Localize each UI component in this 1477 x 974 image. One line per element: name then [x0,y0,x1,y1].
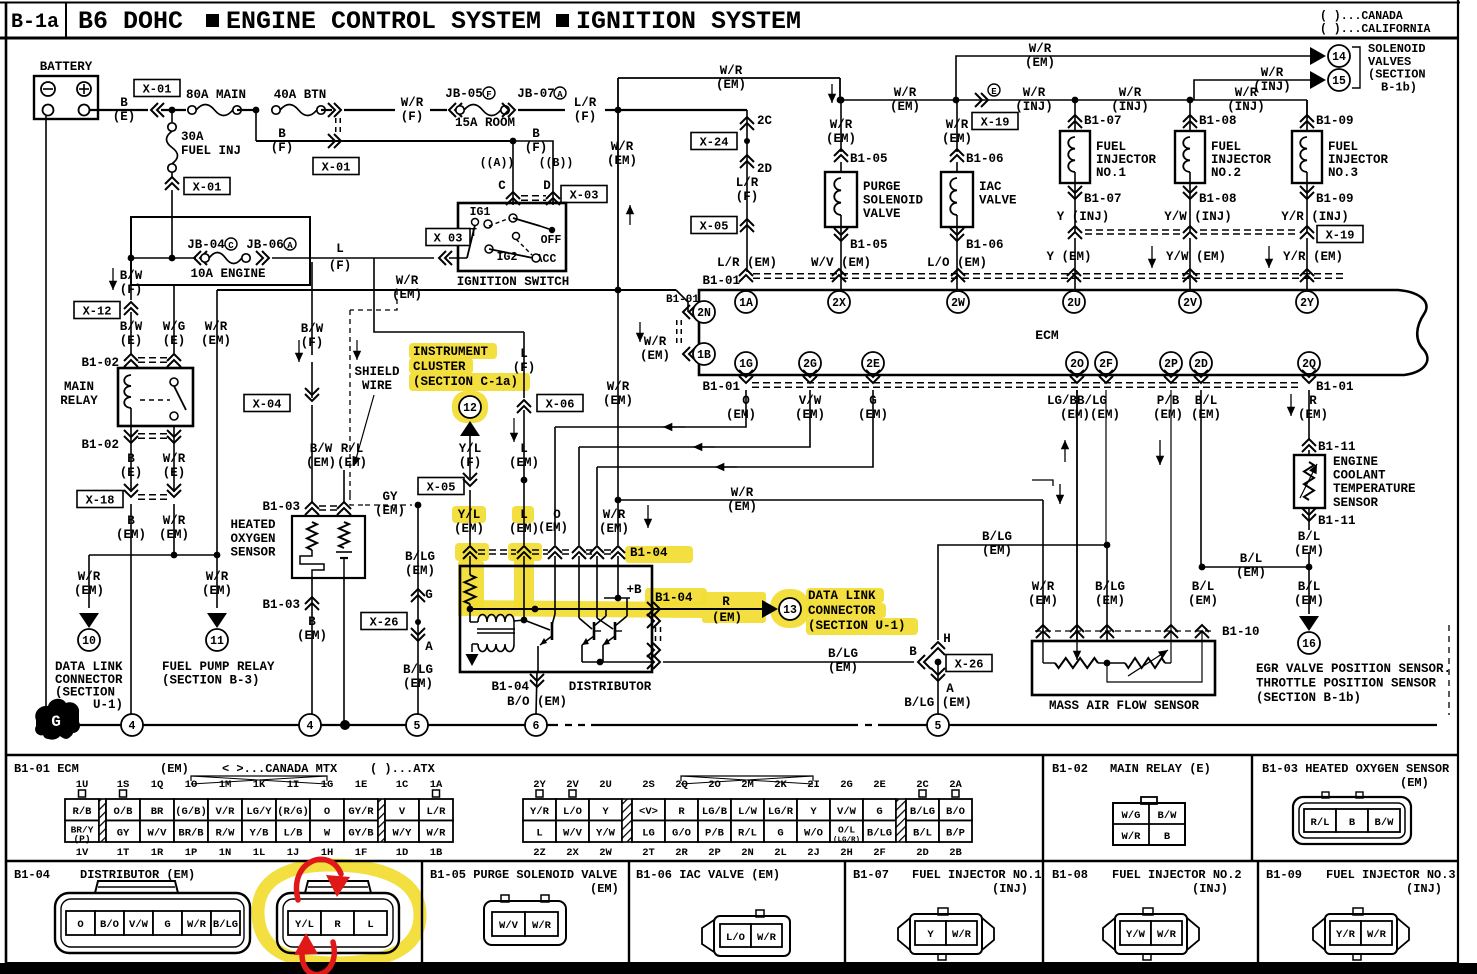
wire R/L shield down [343,470,345,503]
distributor connector A [55,893,250,953]
svg-text:1I: 1I [287,779,300,791]
svg-text:Y: Y [927,929,934,941]
connector B1-11 top [1302,439,1316,452]
svg-text:L/R: L/R [427,806,447,818]
fuse 10A ENGINE [201,254,209,262]
svg-text:GY: GY [382,490,398,504]
grid pin tabs right [536,790,543,797]
svg-text:VALVE: VALVE [863,207,901,221]
ECM left pins [683,305,696,319]
chevron main feed X-01 [151,103,164,117]
svg-text:B: B [127,514,135,528]
svg-text:(E): (E) [120,334,143,348]
svg-text:G: G [876,806,882,818]
svg-text:TEMPERATURE: TEMPERATURE [1333,482,1416,496]
svg-text:(F): (F) [736,190,759,204]
svg-text:JB-05: JB-05 [445,87,483,101]
frame: B-1a cell divider [65,2,67,38]
svg-text:2G: 2G [803,358,817,371]
svg-text:2M: 2M [741,779,754,791]
highlight B1-04 right label [645,588,707,605]
wire Y/R (EM) to ECM [1306,238,1308,292]
ECM pin 2F [1095,352,1117,374]
connector B1-08 top chevron [1189,100,1191,131]
svg-text:W/R: W/R [611,140,634,154]
svg-text:OFF: OFF [541,234,562,247]
svg-text:1E: 1E [355,779,368,791]
wire B/LG from distributor to X-26 [663,661,914,663]
chevron after 15A [502,103,515,117]
svg-text:(EM): (EM) [1294,594,1324,608]
svg-text:2D: 2D [757,162,773,176]
svg-text:B/O: B/O [946,806,965,818]
svg-text:B/L: B/L [1240,552,1263,566]
svg-text:1M: 1M [219,779,232,791]
svg-text:2J: 2J [807,847,820,859]
svg-text:B/LG: B/LG [828,647,858,661]
svg-text:13: 13 [783,604,797,617]
svg-text:Y: Y [810,806,817,818]
svg-text:2R: 2R [675,847,688,859]
ECM pin 1A [735,291,757,313]
wire B/L to MAF [1202,566,1309,568]
svg-text:B1-07: B1-07 [1084,192,1122,206]
svg-text:W/R: W/R [163,514,186,528]
ignition switch box [458,203,566,271]
main relay connector [1113,803,1185,845]
svg-text:B1-06: B1-06 [966,238,1004,252]
svg-text:W/R: W/R [427,827,447,839]
wire R (EM) to circled 13 [663,608,762,610]
svg-text:W/R: W/R [1122,831,1142,843]
svg-text:R/B: R/B [73,806,93,818]
svg-text:Y/R (INJ): Y/R (INJ) [1281,210,1349,224]
svg-text:W/G: W/G [163,320,186,334]
svg-text:1B: 1B [430,847,443,859]
igniter transistor T3 [614,622,617,640]
svg-text:G: G [425,588,433,602]
svg-text:DATA LINK: DATA LINK [808,589,876,603]
svg-text:B/LG: B/LG [1095,580,1125,594]
svg-text:A: A [425,640,433,654]
label B1-04 and distributor [536,672,537,714]
svg-text:P/B: P/B [1157,394,1180,408]
svg-text:VALVE: VALVE [979,194,1017,208]
svg-text:<V>: <V> [639,806,658,818]
ignition coil core [477,628,515,630]
svg-text:5: 5 [935,720,942,733]
svg-text:X-24: X-24 [700,135,729,149]
chevron 10A out [256,251,269,265]
arrow to fuel pump relay 11 [207,613,227,628]
junction dot B(F) branch [253,107,260,114]
emitter bus to B/LG output [582,661,652,663]
svg-text:(SECTION U-1): (SECTION U-1) [808,619,906,633]
wire W/R vertical to distributor [617,290,619,545]
svg-text:O: O [77,919,83,931]
svg-text:(F): (F) [271,141,294,155]
svg-text:1S: 1S [117,779,130,791]
svg-text:1K: 1K [253,779,266,791]
svg-text:2P: 2P [708,847,721,859]
svg-text:BR: BR [151,806,164,818]
svg-text:CONNECTOR: CONNECTOR [808,604,876,618]
svg-text:B/W: B/W [120,320,143,334]
svg-text:B1-11: B1-11 [1318,514,1356,528]
wire distribution to 10/11 [89,554,217,556]
svg-text:B1-06: B1-06 [966,152,1004,166]
connector X-12 [74,302,120,319]
svg-text:2K: 2K [774,779,787,791]
svg-text:(EM): (EM) [509,522,539,536]
svg-text:(E): (E) [120,466,143,480]
svg-text:1A: 1A [430,779,443,791]
svg-text:2T: 2T [642,847,655,859]
svg-text:B-1b): B-1b) [1381,80,1417,94]
svg-text:Y/W: Y/W [596,827,616,839]
connector X-19 chevron [1183,226,1197,239]
svg-text:BR/B: BR/B [178,827,204,839]
svg-text:B1-09: B1-09 [1316,114,1354,128]
svg-text:FUEL: FUEL [1211,140,1241,154]
highlight B1-04 bus row [455,543,489,561]
distributor connector B (circled) [277,893,399,953]
svg-text:B1-01: B1-01 [702,274,740,288]
svg-text:G: G [51,713,61,731]
svg-text:W/V: W/V [499,920,519,932]
svg-text:B1-01: B1-01 [702,380,740,394]
svg-text:1B: 1B [697,349,711,362]
svg-text:(EM): (EM) [159,528,189,542]
connector X-26 chevron [918,655,931,669]
wire W/R(EM) to solenoid valves top [956,56,1310,100]
svg-text:B: B [1349,817,1356,829]
svg-text:W/R: W/R [603,508,626,522]
svg-text:O: O [553,508,561,522]
highlight distributor L wire vertical [514,552,534,610]
svg-text:1N: 1N [219,847,232,859]
svg-text:(EM): (EM) [202,584,232,598]
svg-text:X 03: X 03 [434,231,463,245]
svg-text:2O: 2O [1070,358,1084,371]
svg-text:L/O: L/O [726,932,745,944]
junction dot 30A branch [169,107,176,114]
wire: battery negative to ground G [45,116,47,706]
purge solenoid valve [825,172,857,227]
svg-text:2Q: 2Q [1302,358,1316,371]
power transistor T1 [551,622,554,640]
svg-text:MASS AIR FLOW SENSOR: MASS AIR FLOW SENSOR [1049,699,1200,713]
svg-text:L/O: L/O [563,806,582,818]
svg-text:W/R: W/R [607,380,630,394]
svg-text:B1-01: B1-01 [1316,380,1354,394]
svg-text:ECM: ECM [1035,328,1059,343]
svg-text:2D: 2D [1194,358,1208,371]
svg-text:Y/W: Y/W [1126,929,1146,941]
svg-text:Y/L: Y/L [295,919,314,931]
injector 3 connector [1313,918,1325,950]
connector B1-06 bottom chevron [956,227,958,250]
svg-text:B/LG: B/LG [405,550,435,564]
svg-text:(G/B): (G/B) [175,806,207,818]
svg-text:L: L [367,919,373,931]
svg-text:Y: Y [602,806,609,818]
svg-text:(F): (F) [459,456,482,470]
svg-text:SENSOR: SENSOR [230,546,276,560]
svg-text:(EM): (EM) [599,522,629,536]
svg-text:COOLANT: COOLANT [1333,469,1386,483]
svg-text:B1-02: B1-02 [81,438,119,452]
svg-text:B1-06 IAC VALVE (EM): B1-06 IAC VALVE (EM) [636,868,780,882]
svg-text:W/V: W/V [563,827,583,839]
ECM pin 2O [1066,352,1088,374]
red annotation arrows [296,859,341,974]
svg-text:(EM): (EM) [942,132,972,146]
svg-text:B1-08: B1-08 [1052,868,1088,882]
svg-text:L/B: L/B [284,827,304,839]
svg-text:LG/R: LG/R [768,806,794,818]
svg-text:GY/R: GY/R [348,806,374,818]
svg-text:1D: 1D [396,847,409,859]
ECM pin 1G [735,352,757,374]
svg-text:X-12: X-12 [83,304,112,318]
svg-text:< >...CANADA MTX: < >...CANADA MTX [222,762,338,776]
wire L (F) to ignition switch [272,257,434,259]
svg-text:B1-04: B1-04 [14,868,50,882]
svg-text:B1-03: B1-03 [262,500,300,514]
svg-text:(INJ): (INJ) [1111,100,1149,114]
svg-text:1T: 1T [117,847,130,859]
connector X-06 [517,400,531,413]
connector B1-09 bottom chevron [1306,183,1308,232]
svg-text:PURGE: PURGE [863,180,901,194]
svg-text:R: R [722,595,730,609]
svg-text:IG1: IG1 [470,206,491,219]
frame: top border [0,2,1460,4]
svg-text:NO.3: NO.3 [1328,166,1358,180]
svg-text:IGNITION SYSTEM: IGNITION SYSTEM [576,7,801,36]
connector X-01 [134,80,180,97]
connector X-01 label mid [313,158,359,175]
svg-text:L/R: L/R [736,176,759,190]
connector X-03 chevrons [506,192,520,205]
svg-text:2L: 2L [774,847,787,859]
svg-text:(EM): (EM) [826,132,856,146]
svg-text:RELAY: RELAY [60,394,98,408]
svg-text:(EM): (EM) [607,154,637,168]
connector B1-01 right grid [523,799,556,821]
svg-text:SHIELD: SHIELD [354,365,400,379]
bracket solenoid valves [1352,47,1360,88]
svg-text:(INJ): (INJ) [1015,100,1053,114]
fuse 15A ROOM [456,106,464,114]
svg-text:2B: 2B [949,847,962,859]
connector X-03 box [561,186,607,203]
svg-text:2V: 2V [1183,297,1197,310]
svg-text:INJECTOR: INJECTOR [1328,153,1389,167]
svg-text:B1-08: B1-08 [1199,192,1237,206]
svg-text:(EM): (EM) [727,500,757,514]
connector X-19 box [972,113,1018,130]
wire B(F) right branch [513,140,553,142]
ECM pin 2D [1190,352,1212,374]
wire IAC valve supply [956,100,958,152]
svg-text:Y/L: Y/L [458,508,481,522]
connector X-24 [691,133,737,150]
wire B/LG from X-26 to MAF [938,545,1107,640]
injector 1 connector [898,918,910,950]
svg-text:2W: 2W [951,297,965,310]
connector B1-07 bottom chevron [1074,183,1076,232]
svg-text:B1-02: B1-02 [81,356,119,370]
connector B1-10 bus [1036,625,1050,638]
connector X-26 [361,613,407,630]
tables verticals row1 [1042,755,1044,861]
svg-text:2Y: 2Y [1300,297,1314,310]
chevron E on injector feed [975,93,988,107]
ECM pin 2P [1160,352,1182,374]
svg-text:(EM): (EM) [1400,776,1429,790]
ECM body [699,290,1427,375]
R wire through distributor [470,608,700,610]
svg-text:(F): (F) [329,259,352,273]
svg-text:4: 4 [307,720,314,733]
+B node [615,595,622,602]
connector X-18 [77,491,123,508]
wire from ignition switch IG1 down [374,258,524,332]
junction dot jb [128,255,135,262]
svg-text:W/R: W/R [1032,580,1055,594]
svg-text:Y (EM): Y (EM) [1046,250,1091,264]
connector B1-08 bottom chevron [1189,183,1191,232]
svg-text:(EM): (EM) [403,677,433,691]
svg-text:(EM): (EM) [405,564,435,578]
svg-text:B1-09: B1-09 [1266,868,1302,882]
svg-text:R/L: R/L [341,442,364,456]
svg-text:W/O: W/O [804,827,823,839]
svg-text:B/LG: B/LG [213,919,238,931]
svg-text:1F: 1F [355,847,368,859]
connector X 03 box [426,229,470,246]
svg-text:V/W: V/W [129,919,149,931]
svg-text:W/Y: W/Y [393,827,413,839]
svg-text:FUEL: FUEL [1096,140,1126,154]
wire L/O to ECM [956,250,958,292]
svg-text:2O: 2O [708,779,721,791]
svg-text:B1-08: B1-08 [1199,114,1237,128]
svg-text:L: L [520,442,528,456]
svg-text:X-19: X-19 [1326,228,1355,242]
svg-text:2W: 2W [599,847,612,859]
svg-text:(EM): (EM) [590,882,619,896]
svg-text:5: 5 [414,720,421,733]
svg-text:( )...CALIFORNIA: ( )...CALIFORNIA [1320,23,1431,36]
dashed GY wire [350,495,365,505]
svg-text:2V: 2V [566,779,579,791]
ground symbol G [35,699,80,740]
svg-text:B1-03 HEATED OXYGEN SENSOR: B1-03 HEATED OXYGEN SENSOR [1262,762,1450,776]
svg-text:(INJ): (INJ) [1406,882,1442,896]
svg-text:W/R: W/R [396,274,419,288]
svg-text:+B: +B [626,583,642,597]
svg-text:(P): (P) [73,833,90,844]
svg-text:LG/B: LG/B [702,806,728,818]
svg-text:W/R: W/R [731,486,754,500]
wire W/G column [173,285,175,355]
grid pin tabs left [79,790,86,797]
svg-text:BATTERY: BATTERY [40,60,93,74]
main relay [118,368,193,426]
svg-text:R/L: R/L [1311,817,1330,829]
distributor internal ground [472,643,478,645]
svg-text:B/LG: B/LG [403,663,433,677]
arrow to solenoid valve 15 [1310,71,1326,89]
connector X-19 chevron [1300,226,1314,239]
svg-text:(EM): (EM) [890,100,920,114]
svg-text:IAC: IAC [979,180,1002,194]
svg-text:(EM): (EM) [201,334,231,348]
highlight R wire band through distributor [458,600,702,618]
tables frame top [6,754,1458,756]
wire Y (EM) to ECM [1074,238,1076,292]
svg-text:B1-11: B1-11 [1318,440,1356,454]
svg-text:(SECTION B-3): (SECTION B-3) [162,674,260,688]
svg-text:INJECTOR: INJECTOR [1096,153,1157,167]
svg-text:O/L: O/L [838,824,855,835]
bottom black bar [0,963,1477,974]
junction L wire [521,617,528,624]
bracket above 1O..1G [191,776,327,781]
svg-text:B1-04: B1-04 [655,591,693,605]
svg-text:(EM): (EM) [982,544,1012,558]
svg-text:2U: 2U [1067,297,1081,310]
svg-text:2D: 2D [916,847,929,859]
svg-text:(EM): (EM) [1236,566,1266,580]
chevron before 15A [449,103,462,117]
svg-text:Y/R: Y/R [530,806,550,818]
svg-text:B/L: B/L [913,827,932,839]
svg-text:P/B: P/B [705,827,725,839]
svg-text:INSTRUMENT: INSTRUMENT [413,345,489,359]
ECM pin 2X [828,291,850,313]
svg-text:80A MAIN: 80A MAIN [186,88,246,102]
svg-text:SOLENOID: SOLENOID [863,194,924,208]
svg-text:W/R: W/R [206,570,229,584]
svg-text:ENGINE: ENGINE [1333,455,1378,469]
svg-text:W: W [324,827,331,839]
svg-text:O: O [324,806,330,818]
svg-text:NO.1: NO.1 [1096,166,1126,180]
svg-text:1C: 1C [396,779,409,791]
svg-text:JB-04: JB-04 [187,238,225,252]
chevron X-01 on B(F) wire [328,134,341,148]
svg-text:W/R: W/R [1029,42,1052,56]
svg-text:(EM): (EM) [509,456,539,470]
svg-text:(F): (F) [120,283,143,297]
connector X-05 [691,217,737,234]
svg-text:B6 DOHC: B6 DOHC [78,7,183,36]
svg-text:A: A [287,241,293,251]
wire W/R(EM) horizontal to injectors [840,99,1307,101]
svg-text:(EM)(EM): (EM)(EM) [1060,408,1120,422]
chevron 10A [194,251,207,265]
svg-text:X-05: X-05 [427,480,456,494]
svg-text:L/O (EM): L/O (EM) [927,256,987,270]
svg-text:B1-05 PURGE SOLENOID VALVE: B1-05 PURGE SOLENOID VALVE [430,868,617,882]
frame: right border [1457,0,1459,965]
svg-text:(R/G): (R/G) [277,806,309,818]
svg-text:4: 4 [129,720,136,733]
